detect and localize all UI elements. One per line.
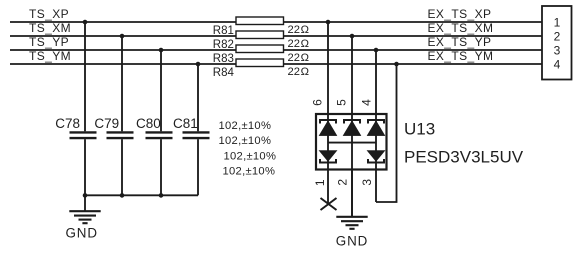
svg-text:EX_TS_YP: EX_TS_YP	[428, 35, 492, 49]
svg-text:R82: R82	[213, 39, 234, 51]
svg-text:TS_YP: TS_YP	[29, 35, 69, 49]
svg-text:22: 22	[288, 52, 300, 64]
svg-text:6: 6	[311, 99, 325, 106]
svg-text:C79: C79	[94, 116, 119, 131]
svg-text:1: 1	[554, 15, 561, 29]
svg-text:2: 2	[554, 29, 561, 43]
svg-text:22: 22	[288, 66, 300, 78]
svg-text:3: 3	[360, 179, 374, 186]
svg-text:C81: C81	[173, 116, 198, 131]
svg-text:Ω: Ω	[301, 52, 309, 64]
svg-text:1: 1	[313, 179, 327, 186]
svg-text:4: 4	[554, 57, 561, 71]
svg-text:22: 22	[288, 24, 300, 36]
svg-text:R83: R83	[213, 53, 234, 65]
svg-text:Ω: Ω	[301, 66, 309, 78]
svg-text:102,±10%: 102,±10%	[219, 135, 272, 147]
svg-text:102,±10%: 102,±10%	[223, 166, 276, 178]
svg-text:4: 4	[360, 99, 374, 106]
svg-text:3: 3	[554, 43, 561, 57]
svg-text:TS_YM: TS_YM	[29, 49, 71, 63]
svg-text:102,±10%: 102,±10%	[224, 151, 277, 163]
svg-text:TS_XM: TS_XM	[29, 21, 71, 35]
svg-text:EX_TS_XM: EX_TS_XM	[428, 21, 494, 35]
svg-text:C78: C78	[55, 116, 80, 131]
svg-text:EX_TS_YM: EX_TS_YM	[428, 49, 494, 63]
svg-text:EX_TS_XP: EX_TS_XP	[428, 7, 492, 21]
svg-text:R81: R81	[213, 25, 234, 37]
svg-text:102,±10%: 102,±10%	[219, 120, 272, 132]
svg-text:C80: C80	[136, 116, 161, 131]
svg-text:Ω: Ω	[301, 24, 309, 36]
svg-text:GND: GND	[65, 225, 97, 240]
svg-text:2: 2	[335, 179, 349, 186]
svg-text:U13: U13	[404, 120, 435, 139]
svg-text:PESD3V3L5UV: PESD3V3L5UV	[404, 148, 524, 167]
svg-text:TS_XP: TS_XP	[29, 7, 69, 21]
svg-text:R84: R84	[213, 67, 235, 79]
svg-text:Ω: Ω	[301, 38, 309, 50]
svg-text:22: 22	[288, 38, 300, 50]
svg-text:5: 5	[335, 99, 349, 106]
svg-text:GND: GND	[336, 234, 368, 249]
